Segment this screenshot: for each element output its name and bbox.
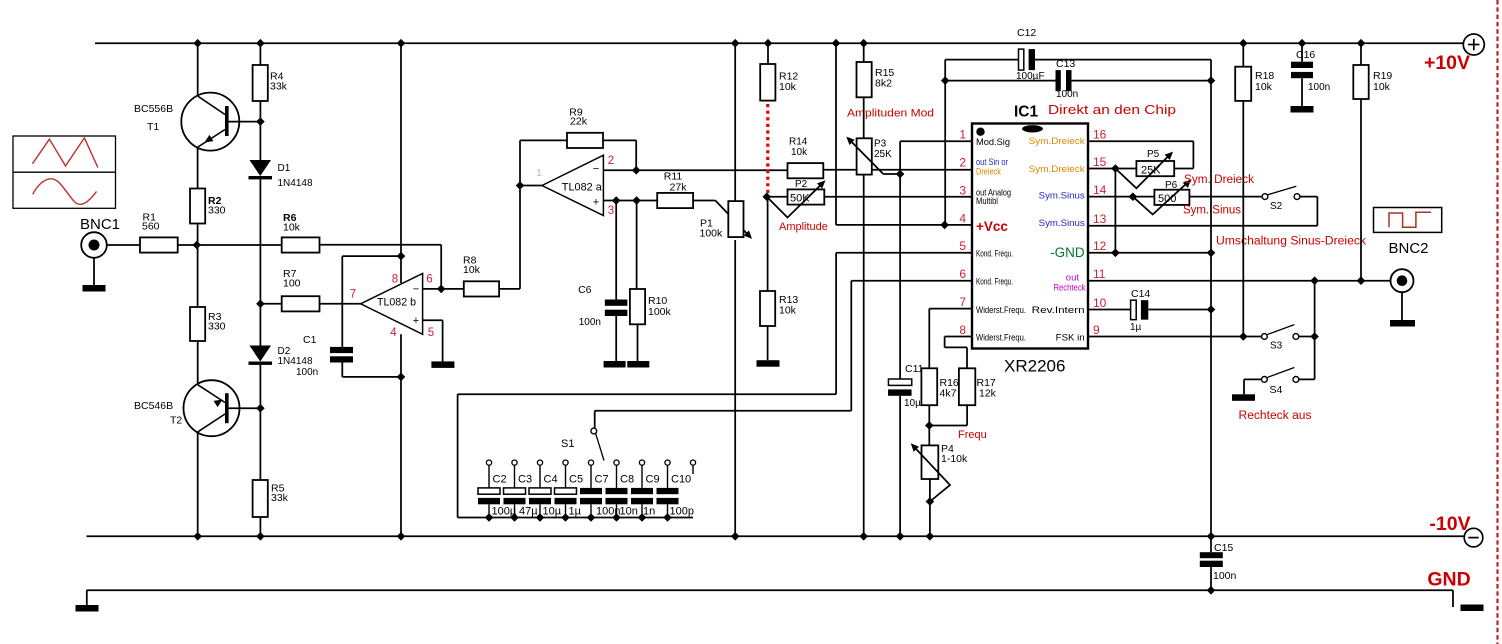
node pin10/GND net bbox=[1207, 305, 1216, 314]
wire -10V bottom rail bbox=[87, 535, 1464, 537]
label C10 bbox=[671, 474, 691, 486]
wire T2 emitter to rail bbox=[197, 432, 199, 537]
svg-text:XR2206: XR2206 bbox=[1004, 357, 1065, 376]
svg-text:Sym.Sinus: Sym.Sinus bbox=[1039, 218, 1085, 229]
svg-text:100n: 100n bbox=[579, 317, 601, 328]
svg-text:8: 8 bbox=[392, 274, 398, 286]
page border marker bbox=[1496, 0, 1498, 644]
switch S1 contact C7 bbox=[588, 460, 593, 465]
arrow P5 wiper bbox=[1165, 152, 1173, 160]
label XR2206 pin 5 bbox=[959, 239, 966, 253]
svg-text:+10V: +10V bbox=[1424, 52, 1470, 74]
wire pin5 net bbox=[458, 253, 972, 518]
label pin2 Dreieck bbox=[976, 167, 1001, 177]
resistor R3 bbox=[190, 307, 205, 341]
label -10V bbox=[1429, 513, 1470, 535]
label R15 bbox=[875, 67, 894, 90]
wire C11 bottom bbox=[899, 396, 901, 537]
wire C4 bottom lead bbox=[539, 504, 541, 517]
node pin12/link bbox=[1111, 249, 1120, 258]
node C11 rail bbox=[896, 532, 905, 541]
wire C7 bottom lead bbox=[590, 504, 592, 517]
label C9 bbox=[646, 474, 660, 486]
label pin8 Widerst.Frequ. bbox=[976, 333, 1026, 343]
label pin9 FSK in bbox=[1056, 333, 1085, 344]
svg-text:15: 15 bbox=[1093, 155, 1107, 169]
svg-text:C8: C8 bbox=[620, 474, 634, 486]
node R16/R17 junction bbox=[925, 421, 934, 430]
svg-text:5: 5 bbox=[428, 327, 434, 339]
svg-text:Rev.Intern: Rev.Intern bbox=[1032, 305, 1085, 316]
label TL082a pin 2 bbox=[608, 155, 614, 167]
node R10 top bbox=[632, 196, 641, 205]
svg-text:BNC1: BNC1 bbox=[80, 216, 120, 233]
capacitor C5 bbox=[555, 488, 577, 504]
squarewave box bbox=[1374, 208, 1442, 233]
wire S3-S4 vertical bbox=[1314, 281, 1316, 380]
label XR2206 pin 7 bbox=[959, 295, 966, 309]
label R18 bbox=[1255, 70, 1274, 93]
label R19 bbox=[1373, 70, 1392, 93]
wire R4 to D1 bbox=[259, 101, 261, 160]
wire TL082b pin6 to R8 bbox=[423, 288, 464, 290]
wire T1 emitter to R2 bbox=[197, 147, 199, 189]
label XR2206 pin 4 bbox=[959, 211, 966, 225]
node pin12/GND net bbox=[1207, 249, 1216, 258]
node P4 wiper join bbox=[926, 497, 935, 506]
label BNC2 bbox=[1389, 240, 1429, 257]
wire pin1 net bbox=[900, 141, 972, 379]
wire P2 left bbox=[767, 196, 788, 198]
svg-text:100n: 100n bbox=[296, 367, 318, 378]
svg-text:33k: 33k bbox=[271, 492, 289, 504]
svg-text:1N4148: 1N4148 bbox=[278, 178, 313, 189]
wire pin4 +Vcc net bbox=[836, 43, 972, 225]
label XR2206 pin 3 bbox=[959, 183, 966, 197]
node C6 top bbox=[612, 196, 621, 205]
wire C5 bottom lead bbox=[565, 504, 567, 517]
label XR2206 pin 12 bbox=[1093, 239, 1107, 253]
svg-text:-10V: -10V bbox=[1429, 513, 1470, 535]
wire T1 collector bbox=[197, 43, 199, 96]
capacitor C8 bbox=[606, 488, 628, 504]
svg-text:7: 7 bbox=[959, 295, 966, 309]
label C14 value bbox=[1130, 322, 1142, 333]
label C16 bbox=[1296, 49, 1315, 61]
node P1 rail bbox=[731, 39, 740, 48]
label R11 bbox=[664, 171, 687, 194]
wire D1 to D2 bbox=[259, 179, 261, 345]
svg-text:Frequ: Frequ bbox=[958, 429, 987, 441]
potentiometer P5 bbox=[1136, 161, 1174, 176]
node C1/pin4 junction bbox=[397, 373, 406, 382]
label XR2206 pin 1 bbox=[959, 128, 966, 142]
svg-text:Umschaltung Sinus-Dreieck: Umschaltung Sinus-Dreieck bbox=[1216, 236, 1366, 248]
label R3 bbox=[208, 311, 226, 332]
label C10 value bbox=[670, 506, 694, 518]
label XR2206 pin 13 bbox=[1093, 212, 1107, 226]
svg-text:4: 4 bbox=[390, 327, 397, 339]
svg-text:4k7: 4k7 bbox=[940, 388, 957, 400]
capacitor C13 bbox=[1056, 70, 1072, 91]
node C4 bus bbox=[536, 513, 545, 522]
wire TL082a pin3 line bbox=[603, 200, 657, 202]
svg-text:10k: 10k bbox=[779, 81, 797, 93]
wire R15 top bbox=[863, 43, 865, 62]
wire P5 wiper bbox=[1115, 154, 1170, 189]
label Rechteck aus bbox=[1239, 410, 1312, 422]
svg-text:47µ: 47µ bbox=[519, 506, 538, 518]
svg-text:R14: R14 bbox=[789, 137, 808, 148]
svg-text:FSK in: FSK in bbox=[1056, 333, 1085, 344]
wire C9 bottom lead bbox=[641, 504, 643, 517]
svg-text:BNC2: BNC2 bbox=[1389, 240, 1429, 257]
wire R2 to junction bbox=[197, 224, 199, 246]
resistor R10 bbox=[630, 289, 645, 324]
label pin6 Kond. Frequ. bbox=[976, 277, 1013, 287]
svg-text:Kond. Frequ.: Kond. Frequ. bbox=[976, 248, 1013, 258]
svg-text:10µ: 10µ bbox=[543, 506, 562, 518]
IC XR2206 body bbox=[972, 124, 1088, 349]
label C4 value bbox=[543, 506, 562, 518]
wire pin16 to P5 bbox=[1088, 141, 1193, 168]
label TL082b pin 7 bbox=[350, 289, 356, 301]
switch S1 contact C9 bbox=[639, 460, 644, 465]
switch S1 contact C8 bbox=[614, 460, 619, 465]
label IC1 bbox=[1014, 104, 1039, 121]
node T2 base bbox=[256, 404, 265, 413]
wire R1-R6 line bbox=[178, 244, 282, 246]
svg-text:Sym. Sinus: Sym. Sinus bbox=[1183, 205, 1241, 217]
wire C4 top lead bbox=[539, 465, 541, 488]
transistor T1 bbox=[181, 93, 260, 151]
svg-text:10n: 10n bbox=[620, 506, 638, 518]
node P3 rail bottom bbox=[859, 532, 868, 541]
svg-text:Mod.Sig: Mod.Sig bbox=[976, 137, 1010, 147]
label C5 bbox=[569, 474, 583, 486]
svg-text:Dreieck: Dreieck bbox=[976, 167, 1001, 177]
svg-text:S1: S1 bbox=[561, 438, 574, 450]
waveform box bbox=[13, 136, 116, 208]
wire junction to R3 bbox=[197, 245, 199, 307]
node pin14 junction bbox=[1129, 192, 1138, 201]
svg-text:−: − bbox=[413, 284, 419, 296]
wire C14 right bbox=[1148, 309, 1211, 311]
wire C3 top lead bbox=[514, 465, 516, 488]
label pin11 out bbox=[1066, 272, 1080, 283]
label Frequ bbox=[958, 429, 987, 441]
label C9 value bbox=[643, 506, 655, 518]
wire TL082b pin4 to -10V bbox=[400, 334, 402, 536]
wire C5 top lead bbox=[565, 465, 567, 488]
svg-text:9: 9 bbox=[1093, 323, 1100, 337]
wire TL082b pin5 ground bbox=[423, 320, 443, 361]
potentiometer P3 bbox=[857, 138, 872, 174]
svg-text:33k: 33k bbox=[270, 81, 288, 93]
switch S2 bbox=[1262, 186, 1300, 199]
wire C15 bottom lead bbox=[1210, 567, 1212, 590]
svg-text:P5: P5 bbox=[1147, 149, 1160, 160]
wire C2 top lead bbox=[488, 465, 490, 488]
svg-text:2: 2 bbox=[959, 156, 966, 170]
svg-text:10k: 10k bbox=[791, 147, 808, 158]
node C13 left bbox=[941, 76, 950, 85]
svg-text:out Sin or: out Sin or bbox=[976, 157, 1008, 167]
node S3 branch bbox=[1310, 276, 1319, 285]
node R4 rail bbox=[256, 39, 265, 48]
wire R6 to TL082b pin6 bbox=[320, 245, 442, 289]
wire P2 wiper bbox=[767, 183, 823, 218]
wire R18 top bbox=[1242, 43, 1244, 66]
svg-text:+: + bbox=[593, 197, 599, 209]
node C12 branch bbox=[940, 221, 949, 230]
node P1 rail bottom bbox=[731, 532, 740, 541]
wire S4 right bbox=[1299, 378, 1315, 380]
label R5 bbox=[271, 483, 289, 505]
wire pin15 line bbox=[1088, 168, 1193, 170]
power -10V terminal bbox=[1464, 528, 1483, 547]
label C1 value bbox=[296, 367, 318, 378]
wire BNC2 ground bbox=[1401, 292, 1403, 320]
svg-text:IC1: IC1 bbox=[1014, 104, 1039, 121]
label S4 bbox=[1270, 384, 1283, 396]
svg-text:100n: 100n bbox=[1213, 570, 1237, 582]
svg-text:P2: P2 bbox=[795, 179, 808, 190]
wire C15 top lead bbox=[1210, 536, 1212, 552]
node C15 top bbox=[1207, 532, 1216, 541]
svg-text:TL082 a: TL082 a bbox=[562, 182, 603, 194]
label pin14 Sym.Sinus bbox=[1039, 190, 1085, 201]
capacitor C6 bbox=[605, 300, 628, 317]
switch S1 contact C10 bbox=[665, 460, 670, 465]
resistor R12 bbox=[760, 64, 775, 101]
wire capacitor bus bbox=[458, 517, 693, 519]
svg-text:10k: 10k bbox=[1255, 81, 1273, 93]
svg-text:22k: 22k bbox=[570, 115, 588, 127]
wire R19 top bbox=[1360, 43, 1362, 65]
node T1 top rail bbox=[193, 39, 202, 48]
resistor R19 bbox=[1353, 65, 1368, 99]
ground C16 bbox=[1291, 106, 1314, 113]
ground TL082b pin5 bbox=[431, 361, 454, 368]
node pin4 rail bbox=[832, 39, 841, 48]
svg-text:100k: 100k bbox=[700, 227, 724, 239]
wire C6 ground lead bbox=[615, 316, 617, 361]
svg-text:C5: C5 bbox=[569, 474, 583, 486]
wire C1 top line bbox=[342, 256, 401, 347]
svg-text:Rechteck: Rechteck bbox=[1054, 282, 1086, 293]
svg-text:1-10k: 1-10k bbox=[941, 453, 968, 465]
label pin11 Rechteck bbox=[1054, 282, 1086, 293]
svg-text:10k: 10k bbox=[779, 305, 797, 317]
capacitor C11 bbox=[888, 379, 912, 396]
svg-text:Sym.Dreieck: Sym.Dreieck bbox=[1029, 164, 1085, 175]
label C13 bbox=[1056, 58, 1075, 70]
svg-text:1: 1 bbox=[536, 168, 542, 179]
svg-text:1µ: 1µ bbox=[1130, 322, 1142, 333]
label pin16 Sym.Dreieck bbox=[1029, 136, 1085, 147]
svg-text:GND: GND bbox=[1427, 569, 1470, 591]
svg-text:13: 13 bbox=[1093, 212, 1107, 226]
svg-text:C2: C2 bbox=[493, 474, 507, 486]
capacitor C12 bbox=[1019, 49, 1036, 70]
svg-text:1µ: 1µ bbox=[569, 506, 582, 518]
wire pin2 line to IC bbox=[823, 169, 972, 171]
svg-text:330: 330 bbox=[208, 204, 226, 216]
ground BNC1 bbox=[83, 285, 106, 292]
wire TL082b pin8 supply bbox=[400, 43, 402, 283]
switch S1 spare contact bbox=[690, 460, 695, 474]
wire P1 top bbox=[734, 43, 736, 202]
svg-text:1n: 1n bbox=[643, 506, 655, 518]
svg-text:27k: 27k bbox=[670, 182, 688, 194]
label TL082b pin 8 bbox=[392, 274, 398, 286]
connector BNC1 bbox=[81, 232, 107, 258]
wire R10 ground lead bbox=[637, 324, 639, 361]
label R8 bbox=[463, 255, 481, 277]
resistor R5 bbox=[253, 480, 268, 517]
resistor R4 bbox=[253, 65, 268, 101]
transistor T2 bbox=[184, 380, 261, 436]
node C15 GND rail bbox=[1207, 586, 1216, 595]
resistor R13 bbox=[760, 291, 775, 326]
resistor R1 bbox=[140, 237, 178, 252]
wire pin13 line bbox=[1088, 225, 1317, 227]
capacitor C4 bbox=[529, 488, 551, 504]
svg-text:Widerst.Frequ.: Widerst.Frequ. bbox=[976, 333, 1026, 343]
label Sym. Sinus bbox=[1183, 205, 1241, 217]
svg-text:Amplitude: Amplitude bbox=[779, 221, 828, 233]
diode D1 bbox=[249, 160, 273, 179]
label C12 value bbox=[1016, 71, 1045, 82]
wire R16 bottom bbox=[928, 405, 930, 445]
svg-text:C4: C4 bbox=[544, 474, 558, 486]
wire C1 bottom bbox=[342, 363, 401, 377]
node R12 rail bbox=[764, 39, 773, 48]
svg-text:S3: S3 bbox=[1270, 341, 1283, 352]
node R19 rail bbox=[1357, 39, 1366, 48]
wire GND net vertical bbox=[1210, 81, 1212, 537]
capacitor C2 bbox=[478, 488, 500, 504]
label pin2 out Sin or bbox=[976, 157, 1008, 167]
node T2 rail bbox=[193, 532, 202, 541]
wire TL082a pin2 line bbox=[603, 169, 787, 171]
wire S3 right bbox=[1299, 336, 1315, 338]
node C9 bus bbox=[638, 513, 647, 522]
svg-text:TL082 b: TL082 b bbox=[377, 297, 416, 309]
capacitor C14 bbox=[1131, 300, 1149, 320]
svg-text:C16: C16 bbox=[1296, 49, 1315, 61]
svg-text:S2: S2 bbox=[1270, 201, 1283, 212]
switch S3 bbox=[1262, 325, 1299, 340]
label C2 value bbox=[492, 506, 517, 518]
wire C13 line bbox=[945, 80, 1211, 82]
wire R5 to rail bbox=[259, 517, 261, 536]
node P4 rail bbox=[926, 532, 935, 541]
label pin1 Mod.Sig bbox=[976, 137, 1010, 147]
capacitor C9 bbox=[631, 488, 653, 504]
label pin5 Kond. Frequ. bbox=[976, 248, 1013, 258]
svg-text:5: 5 bbox=[959, 239, 966, 253]
label C15 bbox=[1214, 542, 1233, 554]
wire P3 bottom bbox=[863, 175, 865, 537]
resistor R17 bbox=[959, 368, 975, 405]
resistor R8 bbox=[464, 281, 499, 296]
label S2 bbox=[1270, 201, 1283, 212]
label C7 bbox=[595, 474, 609, 486]
wire R9 left bbox=[520, 139, 567, 141]
svg-text:3: 3 bbox=[959, 183, 966, 197]
wire BNC1 ground bbox=[93, 257, 95, 285]
label R6 bbox=[283, 212, 301, 234]
svg-text:BC546B: BC546B bbox=[134, 400, 173, 412]
svg-text:Amplituden Mod: Amplituden Mod bbox=[847, 108, 934, 120]
svg-text:1: 1 bbox=[959, 128, 966, 142]
wire C7 top lead bbox=[590, 465, 592, 488]
wire pin14 line bbox=[1088, 196, 1262, 198]
wire R17 bottom bbox=[929, 405, 967, 425]
label C1 bbox=[303, 334, 317, 346]
node C10 bus bbox=[663, 513, 672, 522]
wire pin10 line bbox=[1088, 309, 1131, 311]
label XR2206 pin 8 bbox=[959, 323, 966, 337]
label P2 bbox=[795, 179, 808, 190]
label S3 bbox=[1270, 341, 1283, 352]
label R16 bbox=[940, 377, 959, 400]
node C2 bus bbox=[485, 513, 494, 522]
label C2 bbox=[493, 474, 507, 486]
label P3 bbox=[874, 139, 892, 161]
label S1 bbox=[561, 438, 574, 450]
svg-text:4: 4 bbox=[959, 211, 966, 225]
label XR2206 pin 11 bbox=[1093, 267, 1106, 281]
label R14 bbox=[789, 137, 808, 159]
wire P4 wiper bbox=[913, 446, 950, 502]
node pin9/R18 bbox=[1239, 332, 1248, 341]
resistor R11 bbox=[657, 193, 693, 208]
label D2 bbox=[278, 346, 313, 367]
label C8 value bbox=[620, 506, 638, 518]
arrow P1 wiper bbox=[744, 230, 752, 239]
node x401 rail bottom bbox=[397, 532, 406, 541]
node R15 rail bbox=[859, 39, 868, 48]
ground R10 bbox=[627, 361, 649, 368]
switch S1 contact C4 bbox=[537, 460, 542, 465]
svg-text:6: 6 bbox=[426, 274, 432, 286]
ground S4 bbox=[1232, 394, 1255, 401]
wire C10 bottom lead bbox=[667, 504, 669, 517]
label TL082b pin 6 bbox=[426, 274, 432, 286]
svg-text:100p: 100p bbox=[670, 506, 694, 518]
svg-text:10µ: 10µ bbox=[904, 398, 921, 409]
potentiometer P4 bbox=[922, 445, 939, 479]
label P1 bbox=[700, 217, 724, 239]
label P5 bbox=[1147, 149, 1160, 160]
node pin15 junction bbox=[1111, 164, 1120, 173]
switch S4 bbox=[1262, 368, 1299, 383]
svg-text:6: 6 bbox=[959, 267, 966, 281]
triangle waveform bbox=[33, 138, 98, 168]
svg-text:Kond. Frequ.: Kond. Frequ. bbox=[976, 277, 1013, 287]
label C4 bbox=[544, 474, 558, 486]
label R1 bbox=[142, 212, 160, 233]
label XR2206 pin 6 bbox=[959, 267, 966, 281]
node pin8 node bbox=[397, 252, 406, 261]
label C13 value bbox=[1056, 89, 1078, 100]
label R13 bbox=[779, 294, 798, 317]
svg-text:3: 3 bbox=[608, 205, 614, 217]
svg-text:1N4148: 1N4148 bbox=[278, 356, 313, 367]
